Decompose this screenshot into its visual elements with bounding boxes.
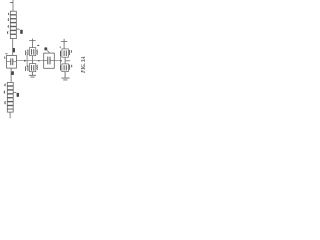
crystal plates inside box 38 [48, 57, 50, 65]
label left c of bottom ladder [4, 101, 7, 104]
crystal lead stubs inside box 38 [44, 60, 55, 62]
label 35 left of top ladder [6, 31, 9, 33]
wire bottom lead [9, 112, 11, 118]
leader wire to label right of bottom ladder [13, 91, 16, 93]
crystal plates inside box 36 [11, 58, 13, 65]
wire box 36 to bottom ladder [10, 68, 12, 82]
box 36 (resonator block) [7, 55, 17, 68]
VDD rail inverter 1 [29, 39, 35, 48]
svg-text:FIG. 3A: FIG. 3A [80, 56, 87, 73]
label 42 up-right of Q1 [37, 44, 39, 47]
crystal lead stubs inside box 36 [7, 61, 17, 63]
drain tie line inverter 2 [64, 57, 66, 64]
block chain 30 (top ladder of cells) [10, 11, 16, 38]
label 32 blob right of top ladder [20, 30, 23, 34]
output wire stub [65, 60, 70, 62]
box 38 (resonator block 2) [44, 53, 55, 68]
label tick left of Q3 [59, 47, 61, 49]
label left of Q1 [24, 50, 27, 55]
label left b of bottom ladder [3, 91, 6, 94]
label 29 left of top ladder [7, 13, 10, 15]
label left a of bottom ladder [4, 84, 7, 86]
wire top lead into block chain [12, 0, 14, 11]
label 34 blob on wire [13, 48, 16, 52]
label 44 right of Q3 [69, 50, 72, 55]
transistor Q3 (PMOS inverter 2) [61, 49, 69, 57]
label tick far left of box 36 [4, 57, 7, 59]
label 33 left of top ladder [7, 25, 10, 27]
label tick 10 at top lead [10, 2, 13, 4]
label 38 blob with leader to box 38 [47, 50, 50, 53]
junction dot node A [24, 60, 26, 62]
junction dot node out1 [38, 60, 40, 62]
leader wire to label 32 [16, 28, 20, 31]
label right of Q2 [36, 65, 39, 70]
label 31 left of top ladder [7, 19, 10, 21]
wire box 38 to inverter 2 input [54, 60, 60, 62]
ground inverter 1 [29, 72, 36, 77]
wire ladder to box 36 [12, 39, 14, 56]
block chain 30b (bottom ladder of cells) [7, 82, 13, 112]
label 33 blob on wire [11, 71, 14, 75]
label blob right of bottom ladder [17, 93, 19, 97]
label right of Q1 [36, 50, 39, 55]
label left of Q2 [24, 66, 27, 71]
junction dot node B [60, 60, 62, 62]
transistor Q2 (NMOS inverter 1) [28, 64, 36, 72]
main wire node A: box36 to inverter 1 input [16, 60, 43, 62]
label tick left of box 36 [5, 53, 7, 55]
VDD rail inverter 2 [61, 39, 67, 49]
transistor Q1 (PMOS inverter 1) [28, 48, 36, 56]
gate tie line inverter 2 [60, 56, 62, 65]
label 46 right of Q4 [69, 65, 72, 70]
gate tie line inverter 1 [26, 55, 28, 67]
drain tie line inverter 1 [31, 56, 33, 64]
transistor Q4 (NMOS inverter 2) [61, 64, 69, 72]
ground inverter 2 [61, 72, 69, 80]
